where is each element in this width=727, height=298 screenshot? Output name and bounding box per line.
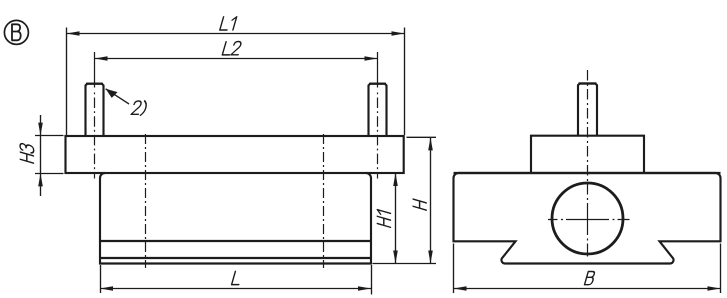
dimension H bottom arrow [428, 251, 433, 264]
front view: right hole centerline [323, 134, 325, 268]
front view: right stud centerline [377, 93, 379, 179]
front view: body outline [100, 173, 371, 264]
dimension B left arrow [454, 286, 467, 291]
dimension H text [413, 199, 426, 210]
side view: bore circle [552, 183, 623, 254]
side view: plate [531, 136, 644, 173]
front view: body groove line lower [100, 257, 371, 259]
dimension H top extension line [407, 136, 437, 138]
dimension H3 line [40, 115, 42, 196]
dimension L2 right arrow [365, 56, 378, 61]
side view: stud top edge [579, 82, 597, 84]
dimension H3 text [20, 143, 34, 164]
dimension L1 left extension line [66, 28, 68, 136]
dimension L1 right extension line [404, 28, 406, 136]
dimension H bottom extension line [373, 263, 437, 265]
dimension B line [454, 288, 721, 290]
dimension H1 top arrow [393, 173, 398, 186]
dimension H1 line [395, 173, 397, 264]
dimension L1 line [67, 33, 405, 35]
dimension H top arrow [428, 137, 433, 150]
front view: right stud [369, 84, 387, 136]
dimension L right extension line [371, 265, 373, 295]
side view: stud [578, 84, 597, 136]
dimension B right arrow [708, 286, 721, 291]
dimension L line [100, 288, 371, 290]
side view: body top edge [454, 172, 721, 174]
dimension H1 bottom arrow [393, 251, 398, 264]
front view: left stud top edge [86, 83, 103, 85]
dimension H3 bottom arrow [38, 173, 43, 186]
dimension L text [232, 271, 243, 284]
dimension B left extension line [453, 244, 455, 294]
callout 2) leader arrow [106, 89, 129, 104]
dimension H line [430, 137, 432, 263]
dimension H3 top arrow [38, 123, 43, 136]
dimension L2 left arrow [95, 56, 108, 61]
dimension L1 text [220, 17, 237, 30]
dimension L1 left arrow [67, 31, 80, 36]
view label B letter [12, 24, 21, 40]
dimension L right arrow [358, 286, 371, 291]
front view: body groove line upper [100, 240, 371, 242]
dimension H1 text [377, 210, 390, 228]
side view: vertical centerline [587, 70, 589, 257]
dimension L left arrow [100, 286, 113, 291]
dimension L2 text [222, 42, 242, 55]
view label B circle [4, 20, 28, 44]
side view: horizontal centerline [548, 219, 630, 221]
front view: clamp plate [66, 136, 404, 173]
front view: left stud centerline [94, 93, 96, 179]
side view: body outline with T-key bottom [454, 173, 721, 264]
dimension L2 line [95, 58, 378, 60]
front view: right stud top edge [369, 83, 386, 85]
callout 2) text [131, 101, 148, 116]
dimension L1 right arrow [392, 31, 405, 36]
dimension B right extension line [720, 244, 722, 294]
dimension L left extension line [100, 265, 102, 293]
dimension L2 left extension line [94, 52, 96, 88]
front view: left hole centerline [145, 134, 147, 268]
front view: left stud [86, 84, 104, 136]
dimension H3 bottom extension line [35, 173, 64, 175]
dimension L2 right extension line [377, 52, 379, 88]
dimension B text [585, 272, 596, 285]
dimension H3 top extension line [35, 135, 64, 137]
